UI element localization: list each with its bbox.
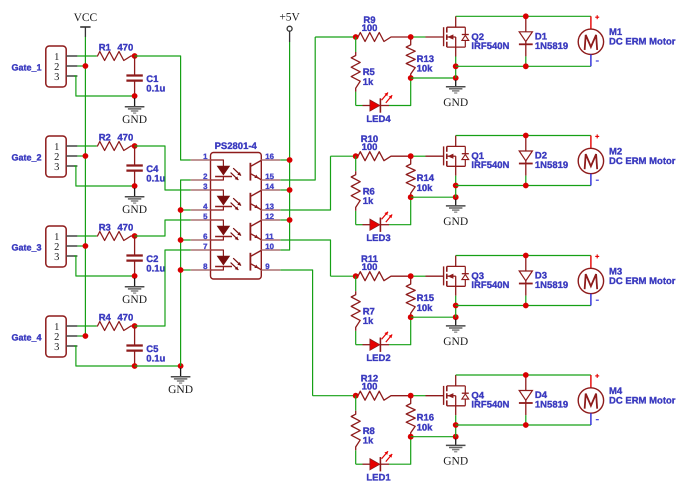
capacitor C2 0.1u [126,237,165,276]
svg-text:0.1u: 0.1u [146,174,165,185]
svg-text:R4: R4 [99,313,112,324]
svg-text:DC ERM Motor: DC ERM Motor [609,37,676,48]
svg-text:IRF540N: IRF540N [471,400,509,411]
svg-text:10k: 10k [417,422,434,433]
motor M2 DC ERM Motor [578,134,676,185]
capacitor C5 0.1u [126,327,165,366]
junction [132,363,138,369]
resistor R15 10k [406,278,435,316]
resistor R12 100 [356,374,411,401]
wire R10k bottom rail [411,196,456,198]
wire gate rail [331,155,359,157]
svg-text:R2: R2 [99,133,111,144]
junction [523,13,529,19]
wire Gate_2 pin1 to R2 [77,145,96,147]
ground [168,368,193,396]
junction [523,372,529,378]
wire opto pin 13 to channel 2 gate rail [280,156,330,210]
junction [523,422,529,428]
wire bottom rail [456,65,591,67]
svg-text:5: 5 [203,212,208,221]
connector Gate_2 [11,136,77,177]
junction [453,434,459,440]
svg-text:0.1u: 0.1u [146,354,165,365]
junction [453,75,459,81]
resistor R2 470 [97,133,135,151]
svg-text:470: 470 [117,223,133,234]
svg-text:470: 470 [117,313,133,324]
wire Gate_4 pin2 to VCC rail [77,335,85,337]
svg-text:12: 12 [265,212,274,221]
junction [132,273,138,279]
svg-text:R3: R3 [99,223,111,234]
junction [178,237,184,243]
svg-text:1N5819: 1N5819 [535,160,568,171]
capacitor C4 0.1u [126,147,165,186]
resistor R5 1k [351,52,375,92]
wire cathode stub [181,269,191,271]
wire VCC rail [84,37,86,336]
svg-text:0.1u: 0.1u [146,264,165,275]
wire bottom rail [456,305,591,307]
connector Gate_4 [11,316,77,357]
svg-text:1: 1 [203,152,208,161]
svg-text:100: 100 [362,262,378,273]
svg-text:GND: GND [122,204,147,216]
svg-text:470: 470 [117,133,133,144]
junction [178,363,184,369]
diode D1 1N5819 [519,16,568,66]
wire R4 node to opto pin 7 [135,250,191,326]
junction [353,273,359,279]
svg-text:Gate_3: Gate_3 [11,243,41,253]
junction [83,333,89,339]
power symbol +5V [279,12,300,42]
svg-text:16: 16 [265,152,274,161]
junction [408,393,414,399]
wire gate rail [331,275,359,277]
svg-text:100: 100 [362,382,378,393]
junction [523,183,529,189]
junction [408,314,414,320]
svg-text:3: 3 [203,182,208,191]
wire Gate_1 pin3 to C1 bottom [74,76,135,96]
wire bottom rail [456,424,591,426]
junction [408,434,414,440]
junction [408,194,414,200]
svg-text:+5V: +5V [279,12,300,24]
svg-text:1k: 1k [363,196,374,207]
svg-text:13: 13 [265,202,274,211]
junction [408,153,414,159]
wire R branch [355,396,357,411]
svg-text:10k: 10k [417,183,434,194]
svg-text:1k: 1k [363,316,374,327]
svg-text:9: 9 [265,262,270,271]
svg-text:Gate_2: Gate_2 [11,153,41,163]
svg-text:GND: GND [443,456,468,468]
ground [122,278,147,306]
svg-text:10k: 10k [417,303,434,314]
transistor Q1 IRF540N [426,136,510,176]
wire Gate_3 pin3 to C2 bottom [74,256,135,276]
LED LED1 [363,451,393,484]
wire gate rail [315,36,358,38]
svg-text:470: 470 [117,43,133,54]
wire R2 node to opto pin 3 [135,146,191,190]
wire Gate_1 pin2 to VCC rail [77,65,85,67]
wire LED to R10k bottom [389,317,411,345]
junction [83,243,89,249]
svg-text:LED2: LED2 [366,353,390,364]
wire LED to R10k bottom [389,78,411,106]
svg-text:3: 3 [54,72,59,83]
svg-text:6: 6 [203,232,208,241]
optocoupler U1 PS2801-4 [191,141,280,279]
diode D4 1N5819 [519,375,568,425]
svg-text:4: 4 [203,202,208,211]
svg-text:10: 10 [265,242,274,251]
diode D2 1N5819 [519,136,568,186]
resistor R11 100 [356,254,411,281]
svg-text:14: 14 [265,182,274,191]
svg-text:2: 2 [203,172,208,181]
svg-text:Gate_4: Gate_4 [11,333,41,343]
ground [443,439,468,468]
svg-text:3: 3 [54,162,59,173]
wire top rail [456,15,591,17]
svg-text:7: 7 [203,242,207,251]
svg-text:GND: GND [122,294,147,306]
motor M1 DC ERM Motor [578,15,676,66]
junction [132,143,138,149]
svg-text:10k: 10k [417,64,434,75]
wire R3 node to opto pin 5 [135,220,191,236]
junction [353,393,359,399]
wire source to ground [455,176,457,198]
wire Gate_3 pin1 to R3 [77,235,96,237]
wire Gate_1 pin1 to R1 [77,55,96,57]
svg-text:100: 100 [362,23,378,34]
wire Gate_4 pin3 to C5 bottom [74,346,135,366]
junction [453,303,459,309]
wire top rail [456,255,591,257]
junction [132,233,138,239]
wire cathode stub [181,209,191,211]
wire cathode stub [181,239,191,241]
motor M4 DC ERM Motor [578,374,676,425]
junction [453,194,459,200]
wire top rail [456,135,591,137]
wire +5V rail to opto collectors [280,42,289,250]
wire source to ground [455,415,457,437]
svg-text:R1: R1 [99,43,112,54]
svg-text:GND: GND [443,97,468,109]
ground [443,80,468,109]
resistor R10 100 [356,134,411,161]
junction [287,157,293,163]
wire source to ground [455,57,457,79]
resistor R13 10k [406,39,434,77]
wire R branch [355,156,357,171]
svg-text:GND: GND [443,216,468,228]
junction [132,183,138,189]
resistor R3 470 [97,223,135,241]
svg-text:1N5819: 1N5819 [535,280,568,291]
resistor R16 10k [406,398,434,436]
junction [287,217,293,223]
resistor R8 1k [351,411,375,451]
wire Gate_4 pin1 to R4 [77,325,96,327]
wire top rail [456,374,591,376]
svg-text:LED4: LED4 [366,114,391,125]
wire collector stub [280,189,289,191]
wire Gate_2 pin3 to C4 bottom [74,166,135,186]
connector Gate_1 [11,46,77,87]
svg-text:GND: GND [168,384,193,396]
wire bottom rail [456,185,591,187]
junction [408,34,414,40]
svg-text:8: 8 [203,262,208,271]
resistor R1 470 [97,43,135,61]
wire opto pin 15 to channel 1 gate rail [280,37,315,180]
wire R10k bottom rail [411,77,456,79]
wire gate rail [313,395,358,397]
svg-text:DC ERM Motor: DC ERM Motor [609,276,676,287]
svg-text:GND: GND [122,114,147,126]
wire R branch [355,276,357,291]
ground [122,98,147,126]
svg-text:LED3: LED3 [366,233,390,244]
svg-text:IRF540N: IRF540N [471,41,509,52]
svg-text:IRF540N: IRF540N [471,280,509,291]
LED LED3 [363,212,393,245]
svg-text:VCC: VCC [74,12,98,24]
junction [132,93,138,99]
power symbol VCC [74,12,98,37]
svg-text:LED1: LED1 [366,473,391,484]
motor M3 DC ERM Motor [578,254,676,305]
transistor Q3 IRF540N [426,256,510,296]
svg-text:Gate_1: Gate_1 [11,63,41,73]
junction [408,75,414,81]
junction [353,153,359,159]
wire Gate_2 pin2 to VCC rail [77,155,85,157]
wire Gate_3 pin2 to VCC rail [77,245,85,247]
junction [453,63,459,69]
LED LED2 [363,332,393,365]
wire LED to R10k bottom [389,437,411,465]
svg-text:100: 100 [362,142,378,153]
junction [83,153,89,159]
wire source to ground [455,296,457,318]
wire C5 bottom to ground [135,365,181,367]
svg-text:IRF540N: IRF540N [471,160,509,171]
resistor R6 1k [351,171,375,211]
svg-text:3: 3 [54,252,59,263]
svg-text:1N5819: 1N5819 [535,41,568,52]
junction [132,53,138,59]
junction [83,63,89,69]
svg-text:11: 11 [265,232,274,241]
wire collector stub [280,219,289,221]
junction [523,133,529,139]
transistor Q2 IRF540N [426,16,510,56]
resistor R7 1k [351,291,375,331]
junction [132,323,138,329]
svg-text:DC ERM Motor: DC ERM Motor [609,156,676,167]
junction [523,303,529,309]
ground [443,319,468,348]
diode D3 1N5819 [519,256,568,306]
junction [178,267,184,273]
resistor R9 100 [356,15,411,42]
svg-text:1N5819: 1N5819 [535,400,568,411]
junction [453,422,459,428]
svg-text:0.1u: 0.1u [146,84,165,95]
wire R branch [355,37,357,52]
junction [523,63,529,69]
wire opto pin 9 to channel 4 gate rail [280,270,312,396]
wire R10k bottom rail [411,436,456,438]
svg-text:1k: 1k [363,436,374,447]
svg-text:GND: GND [443,336,468,348]
svg-text:PS2801-4: PS2801-4 [215,141,258,152]
svg-text:15: 15 [265,172,274,181]
ground [122,188,147,216]
wire collector stub [280,159,289,161]
wire opto cathode rail to ground [181,180,191,366]
junction [287,187,293,193]
junction [408,273,414,279]
wire opto pin 11 to channel 3 gate rail [280,240,330,276]
wire R10k bottom rail [411,316,456,318]
junction [453,314,459,320]
capacitor C1 0.1u [126,57,165,96]
transistor Q4 IRF540N [426,375,510,415]
svg-text:1k: 1k [363,77,374,88]
wire R1 node to opto pin 1 [135,56,191,160]
resistor R14 10k [406,158,435,196]
svg-text:3: 3 [54,342,59,353]
connector Gate_3 [11,226,77,267]
junction [523,253,529,259]
ground [443,199,468,228]
resistor R4 470 [97,313,135,331]
svg-text:DC ERM Motor: DC ERM Motor [609,395,676,406]
junction [178,207,184,213]
junction [453,183,459,189]
LED LED4 [363,93,393,126]
junction [353,34,359,40]
wire LED to R10k bottom [389,197,411,225]
